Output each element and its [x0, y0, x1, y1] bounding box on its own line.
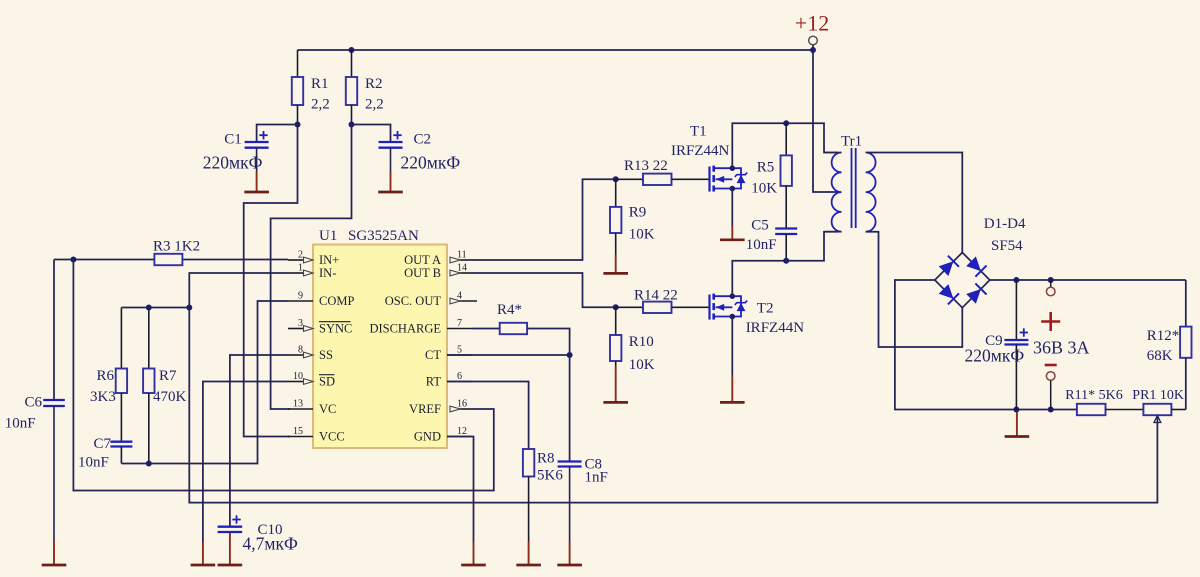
svg-text:VREF: VREF	[409, 402, 441, 416]
symbol minus red	[1045, 364, 1057, 367]
junction R1/C1	[295, 122, 301, 128]
capacitor C9	[1015, 280, 1017, 340]
svg-text:10K: 10K	[751, 181, 777, 197]
wire C6 to ground	[53, 406, 55, 542]
svg-text:2: 2	[298, 250, 303, 261]
wire VREF to IN+ node	[73, 260, 493, 491]
pin 12 GND	[447, 436, 472, 438]
svg-text:IN+: IN+	[319, 253, 339, 267]
transistor T1 IRFZ44N	[710, 165, 748, 191]
svg-text:R5: R5	[757, 160, 775, 176]
capacitor C8	[558, 460, 582, 462]
svg-text:T2: T2	[757, 301, 774, 317]
symbol plus red	[1041, 320, 1060, 323]
svg-text:R4*: R4*	[497, 302, 522, 318]
resistor R7	[148, 308, 150, 369]
resistor R4*	[500, 323, 527, 334]
junction R7 top	[146, 305, 152, 311]
svg-text:C1: C1	[224, 132, 242, 148]
junction plus terminal	[1048, 277, 1054, 283]
ground C9	[1016, 412, 1018, 437]
transformer Tr1 secondary winding	[866, 153, 876, 232]
svg-text:3K3: 3K3	[90, 389, 116, 405]
pin 5 CT	[447, 354, 472, 356]
svg-text:10K: 10K	[629, 227, 655, 243]
junction rail/R2	[349, 47, 355, 53]
wire C5 bottom	[785, 234, 787, 261]
svg-text:IRFZ44N: IRFZ44N	[746, 320, 805, 336]
resistor R13	[643, 174, 672, 185]
svg-text:SF54: SF54	[991, 238, 1023, 254]
junction CT/R4*/C8	[567, 352, 573, 358]
wire IN- to R6/R7 and feedback	[189, 273, 1157, 503]
svg-text:10nF: 10nF	[746, 237, 777, 253]
svg-text:220мкФ: 220мкФ	[965, 346, 1025, 366]
svg-text:PR1 10K: PR1 10K	[1132, 388, 1184, 403]
svg-text:C6: C6	[24, 395, 42, 411]
pin 8 SS	[288, 354, 304, 356]
wire top +12 rail	[298, 49, 814, 51]
node output minus terminal	[1046, 372, 1055, 381]
svg-text:SS: SS	[319, 348, 333, 362]
svg-text:OUT A: OUT A	[404, 253, 441, 267]
svg-text:10: 10	[293, 371, 303, 382]
pin 1 IN-	[288, 272, 304, 274]
wire R1 net to VCC pin15	[244, 125, 298, 437]
svg-text:220мкФ: 220мкФ	[401, 153, 461, 173]
resistor R1	[292, 77, 303, 105]
wire secondary top to bridge top	[866, 153, 963, 253]
svg-text:12: 12	[457, 426, 467, 437]
wire R13 to T1 gate	[672, 178, 710, 180]
svg-text:16: 16	[457, 399, 467, 410]
capacitor C2	[379, 141, 403, 143]
svg-text:Tr1: Tr1	[841, 134, 862, 150]
wire SD to ground	[203, 382, 288, 543]
resistor R9	[615, 179, 617, 207]
svg-text:5: 5	[457, 345, 462, 356]
junction C9 top	[1013, 277, 1019, 283]
wire PR1 to R12*	[1171, 409, 1185, 411]
wire GND pin12 to ground	[447, 437, 474, 543]
svg-text:VC: VC	[319, 402, 336, 416]
svg-text:R3 1K2: R3 1K2	[153, 239, 200, 255]
PR1 wiper arrow	[1154, 416, 1161, 423]
svg-text:GND: GND	[414, 430, 441, 444]
op-amp U1 SG3525AN body	[313, 245, 447, 449]
wire DISCHARGE R4*	[472, 328, 500, 330]
junction IN+/VREF feedback	[70, 257, 76, 263]
svg-text:COMP: COMP	[319, 294, 354, 308]
svg-text:470K: 470K	[153, 389, 187, 405]
junction R7 bottom	[146, 461, 152, 467]
capacitor C6	[43, 399, 65, 401]
wire C8 to ground	[569, 467, 571, 543]
wire Tr1 primary bottom terminal	[824, 231, 842, 233]
capacitor C5	[775, 227, 797, 229]
svg-text:SG3525AN: SG3525AN	[348, 228, 419, 244]
ground C8	[569, 542, 571, 565]
junction minus terminal	[1048, 407, 1054, 413]
svg-text:36В 3А: 36В 3А	[1033, 338, 1090, 358]
ground SD	[202, 542, 204, 565]
ground T1	[731, 226, 733, 240]
resistor R8	[523, 449, 534, 477]
resistor R12*	[1185, 280, 1187, 327]
wire R4* to CT node	[527, 329, 570, 356]
wire R2 bottom to C2	[352, 125, 391, 143]
resistor R1 lead bottom	[297, 105, 299, 125]
ground GND pin12	[473, 542, 475, 565]
svg-text:T1: T1	[690, 124, 707, 140]
svg-text:OSC. OUT: OSC. OUT	[385, 294, 442, 308]
svg-text:CT: CT	[425, 348, 441, 362]
ground C2	[390, 172, 392, 192]
svg-text:11: 11	[457, 250, 467, 261]
wire T2 drain to transformer	[732, 232, 838, 297]
ground R9	[615, 255, 617, 273]
junction R2/C2	[349, 122, 355, 128]
junction R14/R10	[613, 304, 619, 310]
resistor R14	[643, 302, 672, 313]
svg-text:R14 22: R14 22	[634, 288, 678, 304]
svg-text:8: 8	[298, 345, 303, 356]
svg-text:+12: +12	[795, 11, 829, 36]
junction C5/T2 drain line	[783, 258, 789, 264]
pin 9 COMP	[288, 300, 313, 302]
svg-text:220мкФ: 220мкФ	[203, 153, 263, 173]
svg-text:9: 9	[298, 291, 303, 302]
pin 11 OUT A	[460, 259, 473, 261]
junction +12/rail	[810, 47, 816, 53]
junction R13/R9	[613, 176, 619, 182]
svg-text:R8: R8	[537, 451, 555, 467]
svg-text:10K: 10K	[629, 357, 655, 373]
pin 13 VC	[288, 408, 313, 410]
svg-text:C5: C5	[751, 218, 769, 234]
svg-text:7: 7	[457, 318, 462, 329]
svg-text:R13 22: R13 22	[624, 158, 668, 174]
svg-text:2,2: 2,2	[311, 97, 330, 113]
wire CT node to C8	[569, 355, 571, 462]
svg-text:SYNC: SYNC	[319, 322, 352, 336]
ground T2	[731, 375, 733, 402]
svg-text:VCC: VCC	[319, 430, 345, 444]
wire R1 bottom to C1	[257, 125, 298, 143]
svg-text:DISCHARGE: DISCHARGE	[369, 322, 441, 336]
node +12 terminal	[809, 36, 818, 45]
ground C6	[53, 542, 55, 565]
svg-text:OUT B: OUT B	[404, 266, 441, 280]
pin 15 VCC	[288, 436, 313, 438]
ground C1	[256, 172, 258, 192]
resistor R6	[120, 308, 122, 369]
svg-text:R1: R1	[311, 76, 329, 92]
pin 3 SYNC	[288, 328, 304, 330]
svg-text:15: 15	[293, 426, 303, 437]
svg-text:4: 4	[457, 291, 462, 302]
wire OUT B to R14	[472, 273, 616, 307]
pin 16 VREF	[460, 408, 473, 410]
node output plus terminal	[1050, 280, 1052, 287]
wire OUT A to R13	[472, 179, 616, 260]
svg-text:2,2: 2,2	[365, 97, 384, 113]
pin 10 SD	[288, 381, 304, 383]
wire R11* to PR1	[1106, 409, 1144, 411]
svg-text:C7: C7	[93, 436, 111, 452]
transformer Tr1 primary winding	[832, 153, 842, 232]
wire C2 to ground	[390, 148, 392, 172]
svg-text:10nF: 10nF	[78, 455, 109, 471]
resistor R13 lead	[616, 178, 643, 180]
wire Tr1 primary top terminal	[824, 152, 842, 154]
svg-text:R6: R6	[96, 368, 114, 384]
svg-text:R10: R10	[629, 334, 654, 350]
svg-text:R7: R7	[159, 368, 177, 384]
svg-text:D1-D4: D1-D4	[984, 216, 1026, 232]
diode D4 (bottom-right)	[966, 289, 981, 304]
ground R10	[615, 366, 617, 402]
junction C9 bottom	[1013, 407, 1019, 413]
svg-text:R9: R9	[629, 205, 647, 221]
wire C7 bottom	[120, 447, 122, 464]
svg-text:U1: U1	[319, 228, 337, 244]
svg-text:R2: R2	[365, 76, 383, 92]
svg-text:68K: 68K	[1147, 348, 1173, 364]
wire CT	[447, 354, 570, 356]
wire T2 source to ground	[731, 317, 733, 376]
capacitor C7	[110, 441, 132, 443]
diode D2 (top-right)	[966, 256, 981, 271]
resistor R11*	[1077, 404, 1106, 415]
diode D3 (bottom-left)	[939, 284, 954, 299]
svg-text:1: 1	[298, 263, 303, 274]
wire +12 down to transformer center tap	[813, 50, 838, 192]
resistor R3	[154, 254, 182, 265]
pin 6 RT	[447, 381, 472, 383]
svg-text:R11* 5K6: R11* 5K6	[1065, 388, 1122, 403]
wire bridge plus rail	[990, 279, 1186, 281]
wire IN+ line	[54, 259, 154, 261]
wire RT to R8	[447, 382, 529, 450]
svg-text:SD: SD	[319, 375, 335, 389]
resistor R10	[615, 307, 617, 335]
svg-text:10nF: 10nF	[5, 416, 36, 432]
resistor R1 lead top	[297, 50, 299, 77]
diode bridge D1-D4 diamond	[935, 253, 990, 308]
junction R5 top	[783, 120, 789, 126]
transformer Tr1 core	[851, 148, 853, 228]
svg-text:14: 14	[457, 263, 467, 274]
pin 2 IN+	[288, 259, 304, 261]
svg-text:3: 3	[298, 318, 303, 329]
capacitor C10	[218, 526, 243, 528]
svg-text:C2: C2	[414, 132, 432, 148]
wire COMP net	[121, 301, 288, 464]
svg-text:IN-: IN-	[319, 266, 336, 280]
wire C1 to ground	[256, 148, 258, 172]
svg-text:13: 13	[293, 399, 303, 410]
wire secondary bottom to bridge bottom	[866, 232, 963, 347]
wire T1 drain to transformer	[732, 123, 838, 168]
svg-text:5K6: 5K6	[537, 468, 563, 484]
wire R6/R7 top	[121, 307, 189, 309]
svg-text:4,7мкФ: 4,7мкФ	[243, 534, 298, 554]
transistor T2 IRFZ44N	[710, 293, 748, 319]
svg-text:RT: RT	[426, 375, 442, 389]
junction IN-/R6R7	[186, 305, 192, 311]
potentiometer PR1	[1143, 404, 1171, 415]
wire R2 net to VC pin13	[271, 125, 352, 410]
svg-text:6: 6	[457, 371, 462, 382]
pin 7 DISCHARGE	[447, 328, 472, 330]
capacitor C1	[245, 141, 269, 143]
svg-text:R12*: R12*	[1147, 328, 1180, 344]
resistor R14 lead	[616, 306, 643, 308]
diode D1 (top-left)	[939, 261, 954, 276]
wire R14 to T2 gate	[672, 306, 710, 308]
pin 4 OSC. OUT	[460, 300, 478, 302]
svg-text:IRFZ44N: IRFZ44N	[671, 143, 730, 159]
svg-text:1nF: 1nF	[585, 470, 608, 486]
pin 14 OUT B	[460, 272, 473, 274]
wire C6 branch	[53, 260, 55, 401]
wire R8 to ground	[528, 477, 530, 543]
ground C10	[229, 533, 231, 565]
wire bridge minus path	[895, 280, 1077, 410]
wire T1 source to ground	[731, 189, 733, 227]
ground R8	[528, 542, 530, 565]
wire SS to C10	[230, 355, 288, 527]
